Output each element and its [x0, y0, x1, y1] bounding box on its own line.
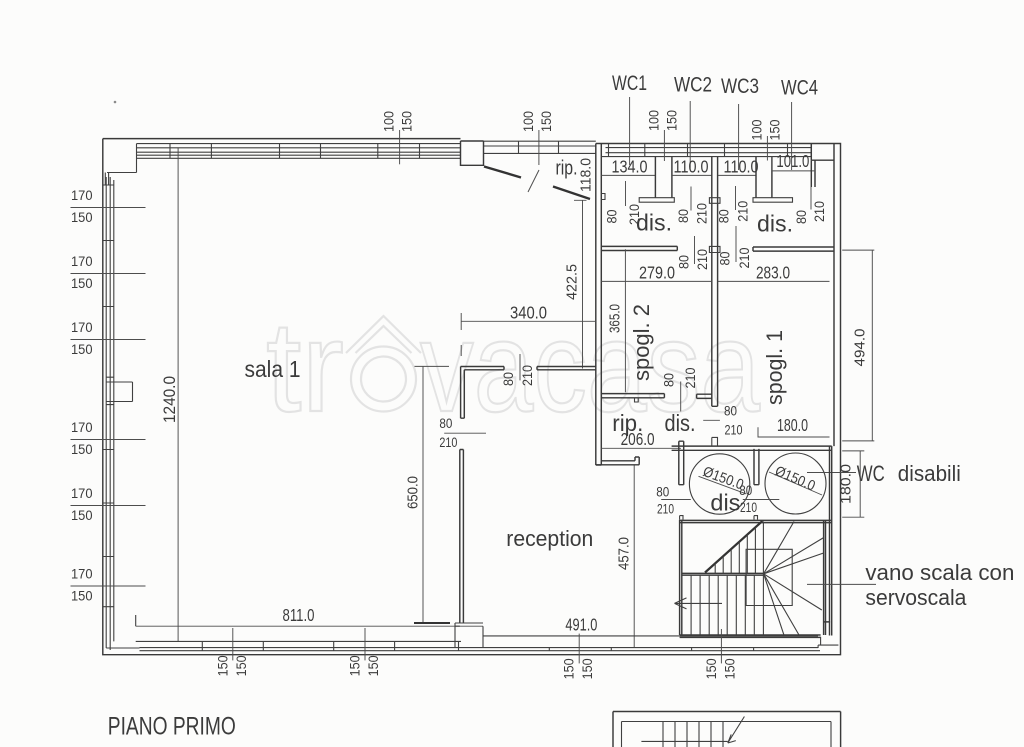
wall flange central bottom	[697, 394, 713, 398]
wall stub wc3/wc4	[756, 157, 772, 198]
svg-text:80: 80	[661, 373, 676, 387]
svg-text:210: 210	[736, 201, 751, 222]
leader WC1	[629, 97, 631, 165]
wall sala/reception lower	[460, 450, 464, 624]
wall bottom	[136, 615, 820, 651]
dim 110.0 first	[672, 174, 712, 176]
svg-text:150: 150	[234, 655, 249, 676]
svg-text:150: 150	[215, 655, 230, 676]
svg-text:80: 80	[717, 252, 732, 266]
wall top-right corner	[811, 144, 834, 447]
dim 180.0 wc disabili top	[758, 427, 830, 437]
dim 457.0 vertical	[633, 466, 635, 648]
svg-text:134.0: 134.0	[612, 157, 648, 177]
dim 134.0	[601, 174, 655, 176]
wall spogl2 bottom	[601, 394, 664, 398]
svg-text:150: 150	[704, 658, 719, 679]
svg-text:80: 80	[656, 485, 669, 500]
dim 494.0 vertical	[842, 250, 874, 441]
svg-text:210: 210	[439, 435, 457, 450]
svg-text:80: 80	[677, 255, 692, 269]
door double entry leaves	[484, 167, 521, 178]
svg-text:210: 210	[725, 423, 743, 438]
svg-text:210: 210	[520, 365, 535, 386]
dim 180.0 vertical wc disabili	[842, 451, 864, 517]
svg-text:210: 210	[740, 500, 757, 515]
svg-text:150: 150	[539, 111, 554, 132]
dim 365.0 vertical	[624, 249, 626, 392]
svg-text:dis: dis	[710, 490, 740, 516]
wall bottom-left corner	[106, 622, 139, 650]
svg-text:WC2: WC2	[674, 74, 712, 97]
svg-text:365.0: 365.0	[606, 304, 623, 333]
svg-text:80: 80	[676, 209, 691, 223]
left wall windows	[106, 177, 114, 622]
dim 101.0	[772, 157, 814, 171]
svg-text:WC4: WC4	[781, 77, 818, 100]
wall sala L corner	[461, 367, 504, 419]
svg-text:150: 150	[71, 276, 93, 291]
wall dis bottom right	[753, 247, 834, 251]
dim 340.0	[461, 313, 596, 356]
svg-text:118.0: 118.0	[577, 158, 594, 192]
stairs main	[675, 516, 832, 638]
svg-text:150: 150	[722, 658, 737, 679]
svg-text:100: 100	[382, 111, 397, 132]
scan speck	[114, 101, 117, 104]
svg-text:210: 210	[683, 368, 698, 389]
svg-text:494.0: 494.0	[852, 329, 869, 367]
svg-text:170: 170	[71, 320, 93, 335]
svg-text:150: 150	[348, 655, 363, 676]
svg-text:spogl. 1: spogl. 1	[762, 330, 787, 405]
svg-text:80: 80	[717, 209, 732, 223]
svg-text:WC: WC	[857, 461, 885, 486]
wall segment to rip	[537, 367, 596, 370]
wall wc4 right	[811, 160, 815, 187]
wall jamb middle circle room	[754, 449, 759, 485]
svg-text:170: 170	[71, 254, 93, 269]
dim 1240.0 vertical	[177, 148, 179, 641]
svg-text:80: 80	[794, 210, 809, 224]
svg-text:422.5: 422.5	[564, 264, 581, 300]
svg-text:80: 80	[439, 416, 452, 431]
svg-text:150: 150	[767, 120, 782, 141]
svg-text:dis.: dis.	[757, 211, 793, 237]
dim 150/150 bottom labels	[232, 628, 234, 660]
svg-text:110.0: 110.0	[674, 157, 709, 177]
svg-text:servoscala: servoscala	[865, 585, 966, 610]
svg-text:170: 170	[71, 188, 93, 203]
circle right wc disabili	[765, 453, 826, 514]
svg-text:rip.: rip.	[556, 157, 578, 180]
door dis left lower	[694, 236, 696, 264]
door wc1	[625, 181, 627, 206]
svg-text:WC3: WC3	[721, 75, 759, 98]
svg-text:PIANO PRIMO: PIANO PRIMO	[108, 713, 236, 741]
door wc2	[690, 187, 692, 211]
svg-text:150: 150	[71, 210, 93, 225]
wall top-left corner block	[105, 144, 136, 185]
wall right side B	[830, 446, 832, 635]
door sala top	[519, 354, 521, 380]
svg-text:210: 210	[812, 201, 827, 222]
leader vano scala	[807, 583, 876, 585]
svg-text:150: 150	[664, 110, 679, 131]
dim 650.0 vertical	[415, 366, 450, 623]
leader WC disabili	[807, 472, 856, 474]
wall rip bottom	[596, 457, 639, 465]
wall stair right A	[824, 520, 831, 635]
svg-text:340.0: 340.0	[510, 303, 547, 323]
dim 422.5 vertical	[574, 200, 587, 368]
svg-text:210: 210	[657, 502, 674, 517]
door wc3	[735, 186, 737, 210]
wall bottom-right corner steps	[818, 637, 838, 648]
svg-text:100: 100	[521, 111, 536, 132]
svg-text:dis.: dis.	[636, 210, 672, 236]
svg-text:811.0: 811.0	[283, 605, 315, 625]
svg-text:101.0: 101.0	[776, 151, 809, 171]
window band top wall sala	[137, 144, 461, 159]
svg-text:150: 150	[71, 442, 93, 457]
dim 110.0 second	[718, 174, 756, 176]
svg-text:210: 210	[695, 249, 710, 270]
watermark trovacasa	[266, 295, 760, 439]
wall left of rip/spogl2	[596, 144, 602, 466]
svg-text:210: 210	[737, 248, 752, 269]
svg-text:650.0: 650.0	[404, 476, 421, 509]
wall central wc	[712, 157, 718, 407]
svg-text:80: 80	[739, 483, 752, 498]
door dis right lower	[735, 226, 737, 262]
svg-text:210: 210	[695, 203, 710, 224]
wall stub wc1/wc2	[655, 157, 672, 198]
svg-text:100: 100	[749, 120, 764, 141]
leader WC2	[689, 101, 691, 170]
svg-text:457.0: 457.0	[615, 537, 632, 570]
dim 279.0	[601, 280, 712, 282]
svg-text:Ø150.0: Ø150.0	[772, 463, 817, 494]
svg-text:180.0: 180.0	[837, 464, 854, 504]
svg-text:180.0: 180.0	[777, 415, 808, 435]
wall wc-disabili top	[672, 446, 832, 450]
svg-text:283.0: 283.0	[756, 263, 790, 283]
svg-text:110.0: 110.0	[724, 157, 759, 177]
leader WC3	[738, 104, 740, 170]
svg-text:150: 150	[71, 508, 93, 523]
wall jamb left circle room	[679, 441, 684, 485]
svg-text:170: 170	[71, 486, 93, 501]
svg-text:WC1: WC1	[612, 72, 647, 95]
wall outer boundary	[103, 138, 461, 140]
window band top wall wc	[601, 148, 811, 157]
svg-text:491.0: 491.0	[565, 615, 597, 635]
svg-text:279.0: 279.0	[639, 263, 675, 283]
door wc4	[810, 187, 812, 210]
dim 170/150 left window labels	[71, 207, 146, 209]
svg-text:80: 80	[501, 372, 516, 386]
dim 206.0	[601, 447, 681, 449]
svg-text:150: 150	[562, 658, 577, 679]
svg-text:sala 1: sala 1	[245, 356, 301, 382]
svg-text:150: 150	[71, 342, 93, 357]
wall pillar top	[461, 141, 484, 165]
circle left wc disabili	[689, 454, 749, 514]
svg-text:170: 170	[71, 420, 93, 435]
staircase fragment bottom	[613, 712, 841, 747]
svg-text:100: 100	[646, 110, 661, 131]
wall pillar left	[106, 377, 133, 404]
wall dis bottom left	[601, 246, 677, 250]
svg-text:170: 170	[71, 567, 93, 582]
svg-text:150: 150	[71, 589, 93, 604]
svg-text:80: 80	[605, 210, 620, 224]
leader WC4	[791, 102, 793, 170]
door spogl2	[680, 382, 682, 412]
svg-text:150: 150	[366, 655, 381, 676]
svg-text:1240.0: 1240.0	[161, 376, 179, 423]
dim 283.0	[718, 280, 830, 282]
dim 100/150 top window labels	[399, 130, 401, 164]
svg-text:206.0: 206.0	[621, 429, 655, 449]
svg-text:80: 80	[724, 404, 737, 419]
svg-text:vano scala con: vano scala con	[865, 560, 1014, 585]
svg-text:spogl. 2: spogl. 2	[629, 304, 654, 381]
svg-text:dis.: dis.	[665, 410, 696, 436]
svg-text:reception: reception	[506, 526, 593, 551]
svg-text:disabili: disabili	[898, 461, 961, 486]
svg-text:150: 150	[400, 111, 415, 132]
svg-text:150: 150	[580, 658, 595, 679]
door spogl1 fraction 80/210	[703, 419, 720, 421]
